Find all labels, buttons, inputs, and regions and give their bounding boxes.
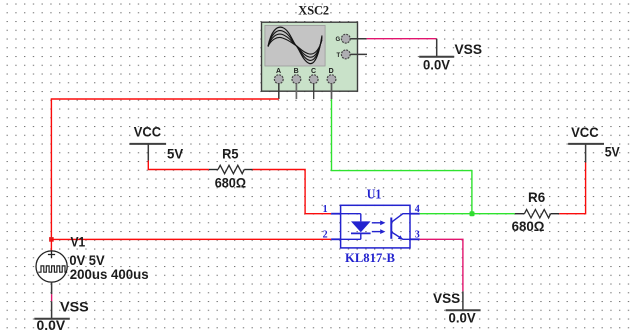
wire U1 pin 3 to VSS (crimson): [420, 239, 463, 291]
wire channel D net (green): [332, 99, 472, 214]
wire scope A to V1 node (red): [51, 99, 278, 239]
svg-text:2: 2: [323, 229, 328, 240]
wire VSS lead (bottom middle): [462, 291, 464, 310]
wire R5 to U1 pin 1 (red): [253, 170, 332, 214]
svg-text:0.0V: 0.0V: [449, 310, 477, 326]
oscilloscope XSC2: [262, 22, 358, 91]
svg-text:VSS: VSS: [433, 290, 460, 306]
resistor R5: [209, 165, 253, 173]
svg-text:4: 4: [415, 204, 420, 215]
power VCC (right): [568, 144, 604, 163]
svg-text:680Ω: 680Ω: [512, 218, 545, 234]
wire scope D stub: [331, 84, 333, 100]
svg-text:R5: R5: [222, 146, 239, 162]
svg-text:A: A: [276, 68, 281, 75]
svg-text:D: D: [329, 68, 334, 75]
wire R6 to VCC (red): [559, 163, 585, 214]
svg-text:VCC: VCC: [571, 124, 599, 140]
svg-text:0.0V: 0.0V: [423, 57, 451, 73]
svg-text:KL817-B: KL817-B: [345, 250, 395, 265]
svg-text:5V: 5V: [605, 144, 621, 160]
svg-text:R6: R6: [528, 189, 545, 205]
svg-text:VSS: VSS: [455, 41, 483, 57]
wire scope G stub: [350, 38, 366, 40]
wire scope G to VSS (crimson): [367, 38, 437, 40]
wire V1 to U1 pin 2 (red): [51, 238, 331, 240]
wire scope C stub: [313, 84, 315, 100]
svg-text:T: T: [337, 53, 341, 59]
wire scope B stub: [295, 84, 297, 100]
svg-text:200us 400us: 200us 400us: [70, 266, 149, 282]
svg-text:5V: 5V: [167, 146, 184, 162]
wire scope A stub: [278, 84, 280, 100]
ground VSS (bottom left): [34, 318, 70, 320]
power VCC (left): [130, 144, 167, 161]
svg-text:G: G: [336, 37, 341, 43]
svg-text:0.0V: 0.0V: [37, 317, 66, 333]
wire U1 pin 4 to R6 (green): [420, 213, 515, 215]
svg-text:VSS: VSS: [60, 299, 89, 315]
node junction at V1 plus: [49, 237, 54, 242]
wire VSS lead (top right): [436, 39, 438, 56]
ground VSS (top right): [419, 56, 454, 58]
wire VCC to R5 (red): [148, 161, 209, 170]
voltage source V1: [36, 251, 67, 282]
ground VSS (bottom middle): [446, 309, 481, 311]
svg-text:VCC: VCC: [134, 124, 161, 140]
wire scope T stub: [350, 53, 367, 55]
svg-text:1: 1: [323, 204, 328, 215]
svg-text:V1: V1: [71, 234, 86, 250]
node junction on green net: [470, 211, 475, 216]
wire V1 plus lead (red): [50, 239, 52, 251]
svg-text:680Ω: 680Ω: [215, 175, 246, 191]
svg-text:B: B: [294, 68, 299, 75]
resistor R6: [515, 210, 559, 218]
svg-text:C: C: [311, 68, 316, 75]
wire V1 minus lead: [51, 282, 53, 318]
optocoupler U1: [331, 205, 420, 248]
svg-text:U1: U1: [367, 187, 382, 202]
svg-text:3: 3: [415, 229, 420, 240]
svg-text:XSC2: XSC2: [298, 4, 329, 18]
